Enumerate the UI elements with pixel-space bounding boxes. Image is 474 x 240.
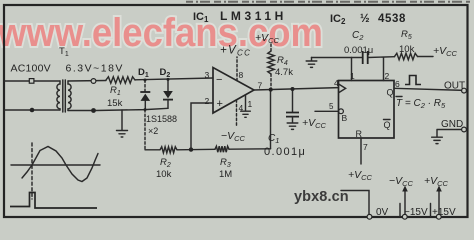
pulse symbol — [405, 76, 421, 85]
svg-text:5: 5 — [329, 102, 334, 111]
terminal circle +15V — [436, 214, 441, 219]
junction dot D1 top — [144, 79, 147, 82]
tiny scan text at very top — [186, 1, 470, 3]
R4 top lead dashed to +Vcc — [270, 43, 272, 52]
diode D2 lead top — [167, 79, 169, 91]
svg-text:10k: 10k — [156, 169, 172, 180]
svg-text:Q: Q — [384, 120, 391, 130]
wire plus-input riser — [191, 103, 213, 150]
svg-text:Q: Q — [387, 88, 394, 98]
junction dot output/C1 — [291, 87, 295, 91]
junction dot rail D1 — [144, 108, 147, 111]
svg-text:3: 3 — [205, 70, 210, 80]
svg-text:0.001μ: 0.001μ — [344, 45, 373, 56]
pin 2 stub IC2 — [383, 58, 385, 81]
capacitor C2 — [363, 51, 368, 64]
svg-text:15k: 15k — [107, 98, 123, 109]
pin 6 output wire to OUT — [394, 88, 464, 90]
svg-text:2: 2 — [205, 96, 210, 106]
svg-text:8: 8 — [239, 70, 244, 80]
timing wire right segment — [368, 56, 395, 59]
svg-text:6.3V~18V: 6.3V~18V — [66, 63, 124, 75]
ground symbol timing — [306, 61, 317, 67]
ground at C1 — [287, 123, 298, 129]
wire +Vcc to pin 5 B input — [315, 110, 339, 112]
junction dot output/R4 — [269, 88, 273, 92]
transformer T1 secondary winding — [68, 81, 71, 111]
waveform pulse — [10, 193, 97, 209]
resistor R1 — [106, 77, 135, 83]
transformer T1 core — [62, 80, 64, 112]
svg-text:B: B — [342, 113, 348, 123]
IC2 4538 box — [339, 81, 395, 139]
svg-text:4.7k: 4.7k — [275, 67, 293, 78]
R4 bottom lead dashed — [270, 74, 272, 90]
svg-text:+: + — [217, 98, 223, 110]
terminal circle OUT — [462, 88, 467, 93]
diode D2 — [163, 91, 173, 98]
ground stub under rail — [121, 110, 123, 130]
svg-text:GND: GND — [441, 119, 463, 130]
waveform dashed timeline — [31, 143, 33, 199]
pin 1 wire — [245, 95, 247, 111]
svg-text:1M: 1M — [219, 169, 232, 180]
svg-text:ybx8.cn: ybx8.cn — [294, 189, 349, 205]
resistor R2 — [160, 147, 177, 153]
wire AC primary bottom — [4, 109, 60, 111]
op-amp U1 triangle — [213, 68, 254, 114]
junction node plus-input divider — [189, 147, 193, 151]
diode D1 — [140, 91, 150, 93]
arrow -Vcc — [404, 190, 406, 216]
tick +15V — [430, 204, 432, 217]
resistor R4 — [268, 51, 274, 74]
terminal circle secondary bottom — [91, 108, 96, 113]
svg-text:−: − — [216, 74, 222, 86]
svg-text:7: 7 — [363, 142, 368, 152]
svg-text:AC100V: AC100V — [11, 63, 51, 75]
junction dot D2 top — [167, 78, 170, 81]
pin 7 output wire — [254, 88, 339, 90]
pin 5 bubble — [339, 109, 344, 114]
wire AC primary top — [4, 80, 60, 82]
svg-text:LM311H: LM311H — [220, 9, 287, 23]
svg-text:+15V: +15V — [432, 207, 456, 218]
wire 0V — [341, 191, 369, 216]
wire to R2 — [145, 149, 160, 151]
svg-text:0.001μ: 0.001μ — [264, 146, 306, 158]
svg-text:1: 1 — [248, 99, 253, 109]
transformer T1 primary winding — [57, 81, 60, 110]
resistor R3 — [215, 146, 229, 152]
terminal circle 0V — [367, 214, 372, 219]
ground stub timing — [311, 58, 313, 61]
A input edge-trigger marker — [339, 84, 346, 92]
svg-text:1S1588: 1S1588 — [146, 114, 177, 124]
svg-text:0V: 0V — [376, 207, 389, 218]
wire feedback riser to output — [270, 90, 272, 149]
diode D1 lead top (dashed) — [144, 80, 146, 92]
terminal circle secondary top — [91, 79, 96, 84]
wire R1 to op-amp input — [135, 78, 213, 80]
waveform sine — [22, 147, 98, 182]
ground symbol GND — [432, 137, 443, 143]
svg-text:½: ½ — [360, 13, 370, 25]
junction dot primary bottom — [30, 108, 35, 113]
wire secondary top — [68, 80, 106, 83]
svg-text:4538: 4538 — [378, 13, 406, 25]
svg-text:2: 2 — [385, 71, 390, 81]
wire R3 to feedback riser — [229, 148, 271, 150]
wire secondary bottom rail — [68, 108, 168, 110]
arrow +Vcc — [438, 190, 440, 216]
svg-text:7: 7 — [258, 81, 263, 91]
wire R5 to +Vcc — [418, 56, 434, 58]
capacitor C1 — [286, 113, 299, 117]
pin 1 stub IC2 — [351, 58, 353, 81]
ground symbol under rail — [117, 131, 128, 138]
pin 7 stub IC2 — [360, 138, 362, 164]
timing wire left segment — [312, 57, 362, 59]
svg-text:4: 4 — [334, 78, 339, 88]
terminal square primary top — [29, 79, 34, 84]
terminal circle GND — [462, 127, 467, 132]
svg-text:×2: ×2 — [148, 126, 158, 136]
svg-text:1: 1 — [350, 71, 355, 81]
wire R2 to R3 — [177, 148, 215, 151]
capacitor C1 lead — [292, 89, 294, 112]
tick -15V — [399, 204, 401, 217]
pin 8 wire — [236, 57, 238, 81]
waveform axis — [11, 164, 100, 166]
wire descent D1 to divider (dashed) — [144, 110, 146, 150]
resistor R5 — [395, 53, 418, 59]
svg-text:10k: 10k — [399, 44, 415, 55]
pin 4 wire (dashed) — [236, 100, 238, 126]
terminal circle -15V — [402, 214, 407, 219]
ground at pin 1 — [241, 111, 251, 117]
wire GND — [437, 130, 466, 137]
svg-text:6: 6 — [395, 79, 400, 89]
